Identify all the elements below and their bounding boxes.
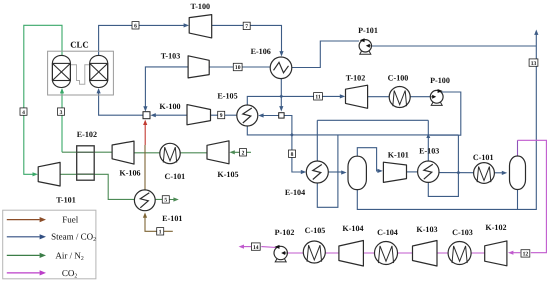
svg-text:K-106: K-106 xyxy=(119,168,140,177)
svg-text:K-104: K-104 xyxy=(342,224,363,233)
svg-text:P-102: P-102 xyxy=(275,228,295,237)
svg-text:T-101: T-101 xyxy=(56,195,76,204)
svg-text:C-100: C-100 xyxy=(388,74,409,83)
svg-text:Steam / CO2: Steam / CO2 xyxy=(51,232,96,244)
svg-text:K-103: K-103 xyxy=(416,225,437,234)
svg-text:3: 3 xyxy=(60,110,63,116)
svg-text:E-102: E-102 xyxy=(77,130,97,139)
svg-text:Fuel: Fuel xyxy=(62,215,79,225)
svg-text:E-101: E-101 xyxy=(162,214,182,223)
svg-text:1: 1 xyxy=(159,230,162,236)
svg-text:C-103: C-103 xyxy=(452,228,473,237)
svg-text:5: 5 xyxy=(164,198,167,204)
svg-text:Air / N2: Air / N2 xyxy=(55,250,84,262)
svg-text:C-105: C-105 xyxy=(305,226,326,235)
svg-text:E-103: E-103 xyxy=(419,147,439,156)
svg-text:P-101: P-101 xyxy=(358,26,378,35)
svg-text:C-101: C-101 xyxy=(473,153,494,162)
svg-text:4: 4 xyxy=(22,110,25,116)
svg-text:11: 11 xyxy=(315,95,320,101)
svg-text:E-105: E-105 xyxy=(217,91,237,100)
svg-text:C-101: C-101 xyxy=(165,172,186,181)
svg-text:10: 10 xyxy=(235,65,241,71)
svg-text:K-101: K-101 xyxy=(388,151,409,160)
svg-text:C-104: C-104 xyxy=(377,228,398,237)
svg-text:T-102: T-102 xyxy=(346,74,366,83)
svg-text:E-106: E-106 xyxy=(251,47,271,56)
svg-text:T-100: T-100 xyxy=(191,2,211,11)
svg-text:2: 2 xyxy=(242,151,245,157)
svg-text:P-100: P-100 xyxy=(430,76,450,85)
svg-text:8: 8 xyxy=(291,152,294,158)
svg-text:CLC: CLC xyxy=(70,40,89,50)
svg-text:T-103: T-103 xyxy=(161,52,181,61)
svg-text:E-104: E-104 xyxy=(285,188,305,197)
svg-text:14: 14 xyxy=(253,245,259,251)
svg-text:K-102: K-102 xyxy=(485,223,506,232)
svg-text:K-105: K-105 xyxy=(217,170,238,179)
svg-text:13: 13 xyxy=(531,61,537,67)
svg-text:12: 12 xyxy=(523,252,529,258)
svg-text:K-100: K-100 xyxy=(159,102,180,111)
svg-text:6: 6 xyxy=(134,24,137,30)
svg-text:7: 7 xyxy=(245,24,248,30)
svg-text:9: 9 xyxy=(220,113,223,119)
